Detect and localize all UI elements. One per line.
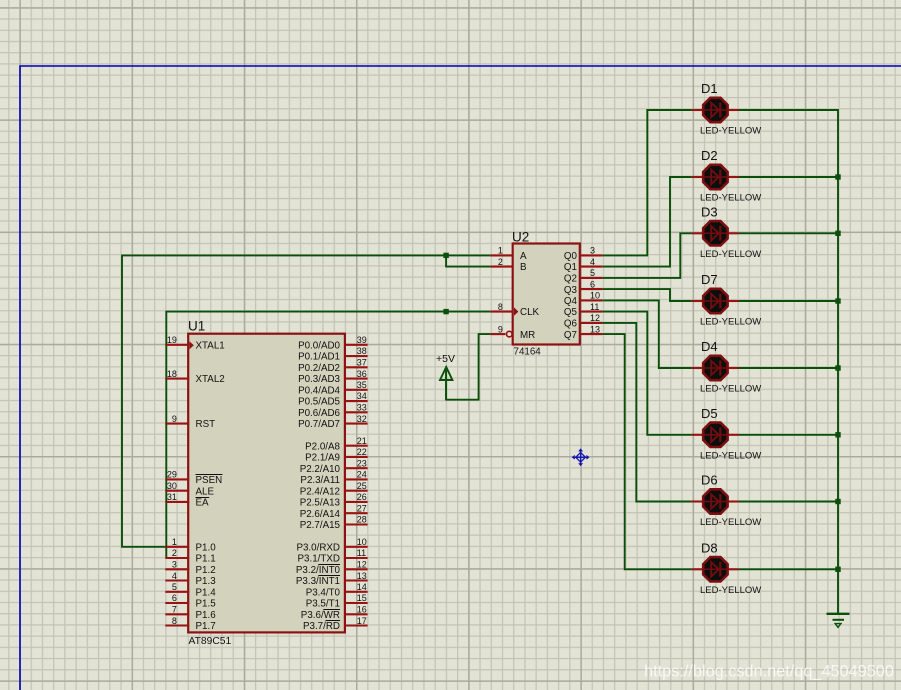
U1 pin 27 (P2.6/A14) [300, 503, 368, 519]
wire U2 Q2 to LED D3 [602, 233, 691, 278]
U2 pin 6 (Q3) [564, 279, 602, 296]
svg-text:7: 7 [172, 605, 177, 615]
U1 pin 1 (P1.0) [165, 537, 216, 553]
svg-text:LED-YELLOW: LED-YELLOW [700, 317, 761, 328]
U1 pin 3 (P1.2) [165, 560, 215, 576]
U1 pin 13 (P3.3/INT1) [296, 571, 368, 587]
svg-text:AT89C51: AT89C51 [189, 636, 232, 647]
svg-text:Q6: Q6 [564, 319, 578, 330]
svg-text:8: 8 [172, 616, 177, 626]
svg-text:31: 31 [167, 492, 177, 502]
svg-text:P1.5: P1.5 [196, 599, 217, 610]
U2 pin 3 (Q0) [564, 246, 602, 262]
wire LED D7 to ground bus [739, 300, 839, 302]
svg-text:P3.2/INT0: P3.2/INT0 [296, 565, 341, 576]
svg-text:Q0: Q0 [564, 251, 578, 262]
wire LED D8 to ground bus [739, 568, 839, 570]
U1 pin 29 (PSEN) [165, 470, 222, 487]
svg-text:P3.3/INT1: P3.3/INT1 [296, 576, 340, 587]
svg-text:B: B [520, 262, 527, 273]
svg-text:P1.0: P1.0 [196, 542, 217, 553]
svg-text:18: 18 [167, 369, 177, 379]
U1 pin 37 (P0.2/AD2) [298, 358, 368, 374]
svg-text:CLK: CLK [520, 307, 540, 318]
wire LED D4 to ground bus [739, 367, 839, 369]
svg-text:LED-YELLOW: LED-YELLOW [700, 126, 761, 137]
LED D4 [692, 356, 739, 380]
svg-text:2: 2 [172, 548, 177, 558]
svg-text:8: 8 [498, 302, 503, 312]
LED D7 [692, 289, 739, 313]
svg-text:P2.1/A9: P2.1/A9 [305, 453, 340, 464]
svg-text:D7: D7 [701, 272, 718, 287]
svg-text:Q1: Q1 [564, 262, 577, 273]
U1 pin 34 (P0.5/AD5) [298, 391, 368, 408]
svg-text:P1.2: P1.2 [196, 565, 216, 576]
svg-text:14: 14 [357, 582, 367, 592]
wire U2 Q5 to LED D5 [602, 312, 691, 435]
svg-text:https://blog.csdn.net/qq_45049: https://blog.csdn.net/qq_45049500 [644, 663, 894, 681]
wire net P1.1 to U2 CLK [166, 312, 490, 558]
LED D2 [692, 165, 739, 189]
svg-text:U1: U1 [188, 319, 205, 334]
svg-text:3: 3 [172, 560, 177, 570]
U1 pin 35 (P0.4/AD4) [298, 380, 368, 396]
svg-text:A: A [520, 251, 527, 262]
svg-text:P3.1/TXD: P3.1/TXD [298, 554, 340, 565]
U1 pin 38 (P0.1/AD1) [298, 346, 368, 363]
junction bus at D3 [835, 231, 840, 236]
U1 pin 9 (RST) [165, 414, 215, 430]
svg-text:XTAL1: XTAL1 [196, 340, 225, 351]
junction bus at D4 [835, 365, 840, 370]
svg-text:LED-YELLOW: LED-YELLOW [700, 517, 761, 528]
U1 pin 30 (ALE) [165, 481, 214, 497]
U2 pin 4 (Q1) [564, 257, 602, 273]
svg-text:P2.5/A13: P2.5/A13 [300, 498, 341, 509]
svg-text:P0.6/AD6: P0.6/AD6 [298, 408, 340, 419]
svg-text:D2: D2 [701, 148, 718, 163]
svg-text:27: 27 [357, 503, 367, 513]
svg-text:P3.7/RD: P3.7/RD [303, 621, 340, 632]
junction bus at D7 [835, 298, 840, 303]
svg-text:34: 34 [357, 391, 367, 401]
svg-text:10: 10 [590, 291, 600, 301]
U1 pin 24 (P2.3/A11) [300, 470, 367, 487]
LED D1 [692, 98, 739, 122]
U1 pin 19 (XTAL1) [165, 335, 224, 351]
svg-text:6: 6 [590, 279, 595, 289]
svg-text:35: 35 [357, 380, 367, 390]
svg-text:Q5: Q5 [564, 307, 578, 318]
svg-text:D4: D4 [701, 339, 718, 354]
svg-text:4: 4 [172, 571, 177, 581]
svg-text:D3: D3 [701, 204, 718, 219]
U1 pin 12 (P3.2/INT0) [296, 560, 368, 576]
U1 pin 33 (P0.6/AD6) [298, 403, 368, 419]
svg-text:Q7: Q7 [564, 330, 577, 341]
svg-text:6: 6 [172, 593, 177, 603]
svg-text:LED-YELLOW: LED-YELLOW [700, 585, 761, 596]
LED D8 [692, 557, 739, 581]
U1 pin 8 (P1.7) [165, 616, 215, 632]
svg-text:5: 5 [172, 582, 177, 592]
U1 pin 36 (P0.3/AD3) [298, 369, 368, 385]
U1 pin 15 (P3.5/T1) [306, 593, 368, 609]
svg-text:XTAL2: XTAL2 [196, 374, 225, 385]
svg-text:P2.2/A10: P2.2/A10 [300, 464, 341, 475]
U1 pin 16 (P3.6/WR) [301, 605, 368, 621]
svg-text:19: 19 [167, 335, 177, 345]
LED D6 [692, 489, 739, 513]
svg-text:Q4: Q4 [564, 296, 578, 307]
U2 pin 1 (A) [490, 246, 527, 262]
svg-text:P0.5/AD5: P0.5/AD5 [298, 397, 340, 408]
svg-text:D1: D1 [701, 81, 718, 96]
svg-text:LED-YELLOW: LED-YELLOW [700, 193, 761, 204]
svg-text:11: 11 [357, 548, 366, 558]
U1 pin 32 (P0.7/AD7) [298, 414, 368, 430]
svg-text:P0.3/AD3: P0.3/AD3 [298, 374, 340, 385]
svg-text:4: 4 [590, 257, 595, 267]
svg-text:21: 21 [357, 436, 367, 446]
U1 pin 39 (P0.0/AD0) [298, 335, 368, 351]
junction bus at D5 [835, 432, 840, 437]
svg-text:29: 29 [167, 470, 177, 480]
U1 pin 23 (P2.2/A10) [300, 458, 368, 474]
U1 pin 26 (P2.5/A13) [300, 492, 368, 509]
wire U2 Q7 to LED D8 [602, 334, 691, 569]
svg-text:5: 5 [590, 268, 595, 278]
U2 pin 5 (Q2) [564, 268, 602, 284]
wire branch A to B [446, 255, 490, 266]
svg-text:P1.6: P1.6 [196, 610, 217, 621]
svg-text:36: 36 [357, 369, 367, 379]
junction on CLK net [443, 309, 448, 314]
shift register U2 74164 body [513, 244, 580, 345]
U1 pin 10 (P3.0/RXD) [296, 537, 367, 553]
svg-text:ALE: ALE [196, 486, 215, 497]
svg-text:12: 12 [590, 313, 600, 323]
svg-text:LED-YELLOW: LED-YELLOW [700, 249, 761, 260]
ground symbol [827, 614, 850, 628]
U1 pin 31 (EA) [165, 492, 209, 509]
LED D5 [692, 423, 739, 447]
svg-text:30: 30 [167, 481, 177, 491]
svg-text:P1.1: P1.1 [196, 554, 216, 565]
svg-text:3: 3 [590, 246, 595, 256]
svg-text:P3.5/T1: P3.5/T1 [306, 599, 340, 610]
U1 pin 22 (P2.1/A9) [305, 447, 367, 464]
wire U2 Q1 to LED D2 [602, 177, 691, 267]
svg-text:P0.0/AD0: P0.0/AD0 [298, 340, 340, 351]
U2 pin 11 (Q5) [564, 302, 602, 318]
wire LED D2 to ground bus [739, 176, 839, 178]
svg-text:1: 1 [498, 246, 503, 256]
svg-text:P2.6/A14: P2.6/A14 [300, 509, 341, 520]
svg-text:37: 37 [357, 358, 367, 368]
svg-text:74164: 74164 [514, 347, 542, 358]
U1 pin 14 (P3.4/T0) [306, 582, 368, 598]
svg-text:16: 16 [357, 605, 367, 615]
svg-text:22: 22 [357, 447, 367, 457]
svg-text:D5: D5 [701, 406, 718, 421]
wire U2 Q0 to LED D1 [602, 110, 691, 255]
wire net P1.0 to U2 pin A [122, 255, 490, 546]
wire U2 Q4 to LED D4 [602, 300, 691, 368]
microcontroller U1 AT89C51 body [188, 334, 345, 633]
LED D3 [692, 221, 739, 245]
svg-text:P1.7: P1.7 [196, 621, 216, 632]
svg-text:P2.0/A8: P2.0/A8 [305, 441, 340, 452]
U2 pin 12 (Q6) [564, 313, 602, 329]
svg-text:Q3: Q3 [564, 285, 578, 296]
svg-text:P3.4/T0: P3.4/T0 [306, 587, 341, 598]
svg-text:10: 10 [357, 537, 367, 547]
U1 pin 5 (P1.4) [165, 582, 216, 598]
U1 pin 11 (P3.1/TXD) [298, 548, 368, 564]
+5V power symbol [436, 353, 455, 400]
U1 pin 7 (P1.6) [165, 605, 216, 621]
svg-text:P3.0/RXD: P3.0/RXD [296, 542, 340, 553]
svg-text:12: 12 [357, 560, 367, 570]
svg-text:P0.4/AD4: P0.4/AD4 [298, 385, 340, 396]
junction bus at D2 [835, 174, 840, 179]
svg-text:PSEN: PSEN [196, 475, 223, 486]
svg-text:RST: RST [196, 419, 216, 430]
svg-text:MR: MR [520, 330, 535, 341]
svg-text:9: 9 [172, 414, 177, 424]
svg-text:23: 23 [357, 458, 367, 468]
svg-text:9: 9 [498, 324, 503, 334]
svg-text:+5V: +5V [436, 353, 455, 365]
svg-text:LED-YELLOW: LED-YELLOW [700, 450, 761, 461]
wire LED D5 to ground bus [739, 434, 839, 436]
svg-text:LED-YELLOW: LED-YELLOW [700, 384, 761, 395]
U1 pin 18 (XTAL2) [165, 369, 224, 385]
svg-text:U2: U2 [512, 230, 529, 245]
svg-text:Q2: Q2 [564, 274, 577, 285]
svg-text:17: 17 [357, 616, 367, 626]
U1 pin 25 (P2.4/A12) [300, 481, 368, 497]
svg-text:P2.7/A15: P2.7/A15 [300, 520, 341, 531]
svg-text:32: 32 [357, 414, 367, 424]
svg-text:2: 2 [498, 257, 503, 267]
wire +5V to U2 MR [446, 334, 490, 400]
svg-text:P1.4: P1.4 [196, 587, 217, 598]
svg-text:28: 28 [357, 515, 367, 525]
junction bus at D8 [835, 567, 840, 572]
svg-text:EA: EA [196, 498, 210, 509]
svg-text:P0.2/AD2: P0.2/AD2 [298, 363, 340, 374]
wire U2 Q3 to LED D7 [602, 289, 691, 301]
svg-text:33: 33 [357, 403, 367, 413]
U1 pin 2 (P1.1) [165, 548, 215, 564]
U1 pin 17 (P3.7/RD) [303, 616, 368, 632]
svg-text:25: 25 [357, 481, 367, 491]
svg-text:38: 38 [357, 346, 367, 356]
U1 pin 6 (P1.5) [165, 593, 216, 609]
svg-text:1: 1 [172, 537, 177, 547]
svg-text:P2.3/A11: P2.3/A11 [300, 475, 340, 486]
svg-text:26: 26 [357, 492, 367, 502]
origin marker [573, 449, 589, 465]
junction A/B tie [443, 253, 448, 258]
U2 pin 13 (Q7) [564, 324, 602, 341]
wire LED D1 to ground bus [739, 110, 839, 614]
svg-text:D6: D6 [701, 473, 718, 488]
svg-text:P1.3: P1.3 [196, 576, 217, 587]
U1 pin 28 (P2.7/A15) [300, 515, 368, 531]
wire U2 Q6 to LED D6 [602, 323, 691, 502]
svg-text:11: 11 [590, 302, 599, 312]
svg-text:24: 24 [357, 470, 367, 480]
U2 pin 8 (CLK) [490, 302, 539, 318]
U1 pin 4 (P1.3) [165, 571, 216, 587]
U1 pin 21 (P2.0/A8) [305, 436, 367, 452]
svg-text:P3.6/WR: P3.6/WR [301, 610, 340, 621]
U2 pin 2 (B) [490, 257, 527, 273]
junction bus at D6 [835, 499, 840, 504]
svg-text:13: 13 [590, 324, 600, 334]
svg-text:39: 39 [357, 335, 367, 345]
svg-text:D8: D8 [701, 540, 718, 555]
svg-text:P0.7/AD7: P0.7/AD7 [298, 419, 340, 430]
svg-text:13: 13 [357, 571, 367, 581]
wire LED D3 to ground bus [739, 232, 839, 234]
svg-text:P2.4/A12: P2.4/A12 [300, 486, 340, 497]
svg-text:P0.1/AD1: P0.1/AD1 [298, 352, 340, 363]
U2 pin 10 (Q4) [564, 291, 602, 307]
U2 pin 9 (MR) [490, 324, 535, 341]
svg-text:15: 15 [357, 593, 367, 603]
wire LED D6 to ground bus [739, 501, 839, 503]
